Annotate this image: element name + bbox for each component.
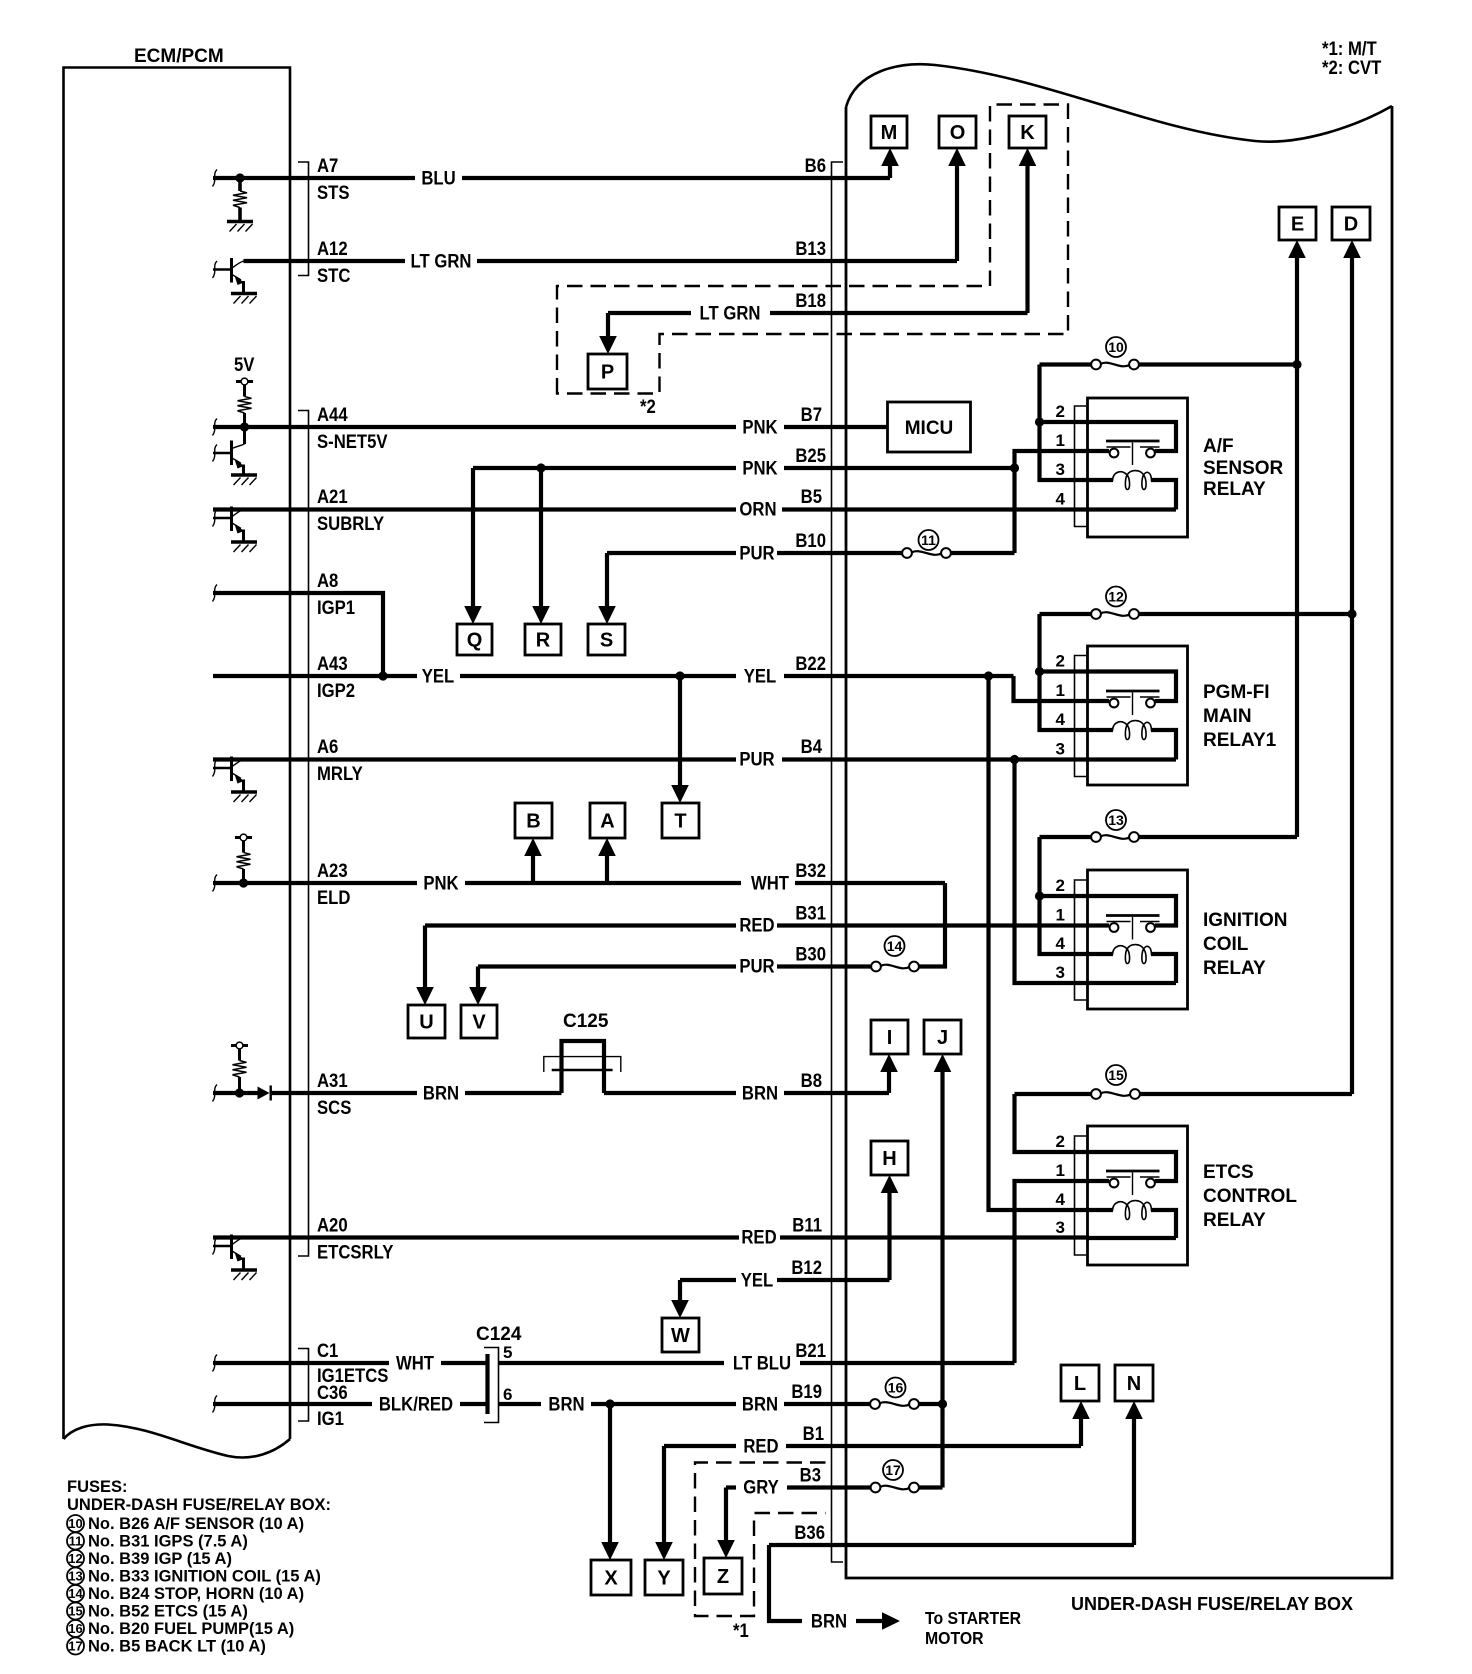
continuation mark C36 [213,1396,218,1413]
label YEL (A43) [422,666,455,687]
junction A/F pin2 [1035,417,1044,426]
continuation mark A12 base [213,261,218,278]
ECM connector bracket C1-C36 [298,1349,309,1422]
wire A6 MRLY to B4 (PUR), feeds PGM-FI relay pin 3 [213,757,1089,761]
wire B1 drop to Y [655,1446,673,1560]
label RED (B11) [741,1227,776,1248]
svg-text:Y: Y [657,1568,671,1590]
svg-text:B30: B30 [795,944,826,965]
svg-text:2: 2 [1056,652,1065,671]
continuation mark A7 [213,170,218,187]
wire B4 down to ignition coil relay pin 3 [1015,760,1090,984]
label B30 [795,944,826,965]
svg-text:J: J [937,1027,948,1049]
label ORN [739,499,776,520]
terminal box L [1061,1365,1099,1401]
wire B1 riser to L [1072,1401,1090,1446]
label RED (B1) [743,1436,778,1457]
dashed enclosure *2 (CVT option, around P and K) [557,105,1068,418]
svg-text:UNDER-DASH FUSE/RELAY BOX: UNDER-DASH FUSE/RELAY BOX [1071,1594,1353,1614]
svg-text:STC: STC [317,265,350,286]
continuation mark A8 [213,585,218,602]
label ELD [317,887,350,908]
svg-text:RELAY: RELAY [1203,1210,1266,1231]
svg-text:U: U [419,1012,433,1034]
svg-text:IGP1: IGP1 [317,597,355,618]
svg-text:COIL: COIL [1203,934,1249,955]
svg-text:L: L [1074,1373,1086,1395]
wire B21 riser to ETCS relay pin 1 [1015,1181,1090,1363]
svg-text:T: T [674,811,686,833]
transistor driver on A12 [213,258,257,304]
svg-text:6: 6 [503,1385,512,1404]
wire C36 IG1 to B19 (BLK/RED / BRN) through C124 pin 6 and fuse 16 [213,1402,943,1406]
svg-text:A/F: A/F [1203,436,1234,457]
svg-text:A7: A7 [317,155,338,176]
svg-text:PNK: PNK [742,458,777,479]
junction B4 riser [1010,755,1019,764]
svg-text:15: 15 [68,1604,82,1619]
wire B22 down to ETCS relay pin 4 [989,676,1090,1210]
terminal box O [939,116,976,148]
svg-text:WHT: WHT [751,873,789,894]
wire B12 riser to H [881,1175,899,1280]
svg-text:A20: A20 [317,1215,348,1236]
label B3 [800,1465,821,1486]
label YEL (B12) [741,1270,774,1291]
label UNDER-DASH FUSE/RELAY BOX [1071,1594,1353,1614]
wire A7 STS to B6 (BLU) [213,176,890,180]
svg-text:4: 4 [1056,934,1066,953]
svg-text:A6: A6 [317,736,338,757]
relay A/F SENSOR RELAY [1056,398,1188,537]
svg-text:B6: B6 [805,155,826,176]
wire B32 down to fuse 14 output [919,883,946,967]
wire A8 IGP1 joins A43 [213,593,383,676]
svg-text:SENSOR: SENSOR [1203,458,1284,479]
svg-text:1: 1 [1056,431,1065,450]
label A/F SENSOR RELAY [1203,436,1284,500]
label A6 [317,736,338,757]
label IG1 [317,1408,344,1429]
svg-text:*2: *2 [640,396,656,417]
svg-text:YEL: YEL [744,666,777,687]
wire B3 (GRY) to Z and through fuse 17 [726,1485,943,1489]
terminal box U [408,1005,445,1038]
svg-text:No. B26 A/F SENSOR (10 A): No. B26 A/F SENSOR (10 A) [88,1515,304,1533]
terminal box M [871,116,907,148]
svg-text:WHT: WHT [396,1353,434,1374]
svg-text:BLU: BLU [421,168,455,189]
svg-text:O: O [950,122,966,144]
label A31 [317,1070,348,1091]
svg-text:5V: 5V [234,354,254,375]
svg-text:YEL: YEL [741,1270,774,1291]
wire B25 drop to R [532,468,550,624]
wire fuse 13 feed (ignition coil relay pins 2 and 4) [1040,837,1298,954]
label PNK (B25) [742,458,777,479]
label To STARTER MOTOR [925,1608,1021,1648]
svg-text:B32: B32 [795,860,826,881]
svg-text:PUR: PUR [739,749,774,770]
junction ignition relay pin2 [1035,891,1044,900]
svg-text:BLK/RED: BLK/RED [379,1394,453,1415]
fuse 13 label [1106,810,1126,830]
svg-text:RELAY: RELAY [1203,479,1266,500]
fuse 17 label [883,1460,903,1480]
fuse 15 label [1106,1065,1126,1085]
svg-text:MOTOR: MOTOR [925,1628,984,1648]
wire B3 drop to Z [717,1488,735,1559]
MICU box [888,402,971,452]
svg-text:ELD: ELD [317,887,350,908]
svg-text:2: 2 [1056,1132,1065,1151]
label BLK/RED [379,1394,453,1415]
svg-text:3: 3 [1056,740,1065,759]
svg-text:4: 4 [1056,1190,1066,1209]
label MRLY [317,763,363,784]
label WHT (C1) [396,1353,434,1374]
label LT BLU (B21) [733,1353,791,1374]
label A21 [317,486,348,507]
svg-text:S-NET5V: S-NET5V [317,431,388,452]
svg-text:ORN: ORN [739,499,776,520]
wire A44 S-NET5V to B7 (PNK) [213,425,888,429]
svg-text:1: 1 [1056,906,1065,925]
svg-text:C125: C125 [563,1011,609,1032]
fuse 10 label [1106,337,1126,357]
svg-text:FUSES:: FUSES: [67,1478,128,1496]
label PUR (B30) [739,956,774,977]
label IGP1 [317,597,355,618]
wire C1 IG1ETCS to B21 (WHT / LT BLU) through C124 pin 5 [213,1361,1015,1365]
svg-text:No. B20 FUEL PUMP(15 A): No. B20 FUEL PUMP(15 A) [88,1620,294,1638]
label SCS [317,1097,351,1118]
label IG1ETCS [317,1365,389,1386]
wire B18 riser to K [1019,148,1037,313]
label B6 [805,155,826,176]
terminal box A [590,803,625,838]
wire B22 step to PGM-FI relay pin 1 [1014,676,1090,701]
svg-text:No. B33 IGNITION COIL (15 A): No. B33 IGNITION COIL (15 A) [88,1568,321,1586]
terminal box W [662,1318,699,1352]
svg-text:3: 3 [1056,1218,1065,1237]
label IGP2 [317,680,355,701]
svg-text:B7: B7 [801,404,822,425]
svg-text:12: 12 [1108,589,1124,605]
svg-text:14: 14 [887,938,903,954]
wire B10 (PUR) through fuse 11 [607,551,1015,555]
label WHT (B32) [751,873,789,894]
junction A8/A43 [378,671,387,680]
svg-text:N: N [1127,1373,1141,1395]
wire B36 to N and starter motor feed [769,1543,1134,1547]
label A20 [317,1215,348,1236]
label PGM-FI MAIN RELAY1 [1203,682,1277,751]
svg-text:PNK: PNK [742,417,777,438]
relay ETCS CONTROL RELAY [1056,1126,1188,1265]
direction diode on A31 [258,1086,271,1101]
5V pull-up resistor on A44 [236,378,253,432]
label SUBRLY [317,513,384,534]
terminal box Z [704,1558,742,1594]
label GRY (B3) [743,1477,779,1498]
label A7 [317,155,338,176]
wire B36 riser to N [1125,1401,1143,1545]
svg-text:B21: B21 [795,1340,826,1361]
label B36 [794,1522,825,1543]
label B4 [801,736,822,757]
label A43 [317,653,348,674]
svg-text:RED: RED [743,1436,778,1457]
svg-text:A: A [600,811,614,833]
label B5 [801,486,822,507]
svg-text:SUBRLY: SUBRLY [317,513,384,534]
label B22 [795,653,826,674]
wire A12 STC to B13 (LT GRN) [244,259,958,263]
svg-text:A23: A23 [317,860,348,881]
svg-text:10: 10 [1108,339,1124,355]
terminal box T [662,803,699,838]
svg-text:UNDER-DASH FUSE/RELAY BOX:: UNDER-DASH FUSE/RELAY BOX: [67,1496,331,1514]
wire B25 (PNK) [473,466,1015,470]
svg-text:SCS: SCS [317,1097,351,1118]
svg-text:BRN: BRN [742,1083,778,1104]
svg-text:X: X [604,1568,618,1590]
svg-text:11: 11 [69,1534,83,1549]
svg-text:CONTROL: CONTROL [1203,1186,1297,1207]
ECM connector bracket A7-A12 [298,162,309,276]
fuse 10 No. B26 A/F SENSOR [1091,360,1139,370]
label B13 [795,238,826,259]
label BRN (B8) [742,1083,778,1104]
svg-text:B12: B12 [791,1257,822,1278]
label B32 [795,860,826,881]
svg-text:A8: A8 [317,570,338,591]
label A23 [317,860,348,881]
wire B8 riser to I [880,1054,898,1093]
svg-text:12: 12 [68,1551,82,1566]
svg-text:C36: C36 [317,1382,348,1403]
continuation mark C1 [213,1355,218,1372]
terminal box R [525,624,561,655]
junction B25/B10 riser [1010,463,1019,472]
ground below A7 resistor [227,208,253,232]
connector B bracket [832,162,844,1562]
svg-text:RED: RED [741,1227,776,1248]
wire B31 (RED) to ignition coil relay pin 1 [425,923,1089,927]
svg-text:3: 3 [1056,460,1065,479]
wire fuse 12 feed (PGM-FI relay pins 2 and 4) [1040,614,1353,730]
label BLU [421,168,455,189]
wire B12 drop to W [671,1280,689,1318]
label C36 [317,1382,348,1403]
svg-text:A44: A44 [317,404,348,425]
transistor driver on A20 [213,1235,257,1281]
terminal box Q [457,624,492,655]
svg-text:RELAY1: RELAY1 [1203,730,1277,751]
terminal box S [588,624,625,655]
svg-text:17: 17 [885,1462,901,1478]
wire A21 SUBRLY to B5 (ORN), feeds A/F relay pin 4 [213,507,1089,511]
svg-text:B18: B18 [795,290,826,311]
label B21 [795,1340,826,1361]
label S-NET5V [317,431,388,452]
label STS [317,182,350,203]
svg-text:No. B39 IGP (15 A): No. B39 IGP (15 A) [88,1550,232,1568]
label A8 [317,570,338,591]
svg-text:RELAY: RELAY [1203,958,1266,979]
svg-text:M: M [881,122,898,144]
fuse 11 label [919,530,939,550]
pull-up resistor on A23 [235,834,252,888]
svg-text:To STARTER: To STARTER [925,1608,1021,1628]
svg-text:K: K [1020,122,1035,144]
label BRN (C36 mid) [548,1394,584,1415]
svg-text:B13: B13 [795,238,826,259]
svg-text:MAIN: MAIN [1203,706,1252,727]
svg-text:16: 16 [68,1621,82,1636]
continuation mark A6 base [213,760,218,777]
svg-text:Q: Q [467,630,483,652]
wire B22 drop to T [671,676,689,803]
wire drop to X [601,1404,619,1560]
svg-text:LT BLU: LT BLU [733,1353,791,1374]
svg-text:BRN: BRN [811,1611,847,1632]
label IGNITION COIL RELAY [1203,910,1287,979]
junction B25/R [536,463,545,472]
label C1 [317,1340,338,1361]
svg-text:MICU: MICU [905,418,954,439]
wire B18 drop to P [599,313,617,354]
under-dash fuse/relay box enclosure [846,64,1392,1578]
svg-text:R: R [536,630,551,652]
wire riser to D and down to fuse 15 [1343,240,1361,1094]
transistor driver on A21 [213,507,257,553]
relay PGM-FI MAIN RELAY1 [1056,646,1188,785]
svg-text:5: 5 [503,1343,512,1362]
svg-text:Z: Z [717,1566,729,1588]
wire B31 drop to U [416,926,434,1006]
label STC [317,265,350,286]
label A12 [317,238,348,259]
ECM/PCM enclosure box [64,68,291,1458]
svg-text:*2: CVT: *2: CVT [1322,57,1381,78]
wire B13 riser to O [948,148,966,261]
terminal box I [871,1020,908,1054]
fuse 11 No. B31 IGPS [902,548,951,558]
label B19 [791,1381,822,1402]
svg-text:10: 10 [68,1516,82,1531]
terminal box P [588,354,627,389]
svg-text:1: 1 [1056,1161,1065,1180]
fuse 14 label [885,936,905,956]
wire fuse 15 feed (ETCS relay pin 2) [1015,1094,1353,1152]
svg-text:B1: B1 [803,1423,824,1444]
continuation mark A20 base [213,1238,218,1255]
svg-text:P: P [601,362,614,384]
svg-text:H: H [882,1148,896,1170]
label pin 5 of C124 [503,1343,512,1362]
wire B6 riser to M [881,148,899,178]
svg-text:V: V [472,1012,486,1034]
svg-text:B22: B22 [795,653,826,674]
terminal box B [515,803,552,838]
connector C124 [476,1324,522,1423]
wire B12 (YEL) to W and H [680,1278,890,1282]
label B31 [795,903,826,924]
label B12 [791,1257,822,1278]
svg-text:B11: B11 [792,1215,822,1236]
continuation mark A23 [213,875,218,892]
label B11 [792,1215,822,1236]
wire B36 down to starter branch [769,1545,900,1630]
terminal box X [591,1560,631,1595]
terminal box N [1115,1365,1153,1401]
svg-text:ECM/PCM: ECM/PCM [134,46,224,67]
wire fuse 10 feed (A/F relay pins 2 and 3) [1040,365,1298,481]
svg-text:16: 16 [888,1380,904,1396]
terminal box E [1279,207,1316,240]
junction fuse16/fuse17/J riser [938,1399,947,1408]
riser fuse outputs to J [934,1054,952,1488]
riser to B box [524,838,542,883]
continuation mark A44 [213,419,218,436]
svg-text:LT GRN: LT GRN [700,303,761,324]
label A44 [317,404,348,425]
svg-text:4: 4 [1056,710,1066,729]
svg-text:B: B [526,811,540,833]
fuse legend [67,1478,331,1656]
label BRN (B19) [742,1394,778,1415]
terminal box K [1009,116,1046,148]
svg-text:B36: B36 [794,1522,825,1543]
continuation mark A21 base [213,510,218,527]
wire A20 ETCSRLY to B11 (RED), feeds ETCS relay pin 3 [213,1235,1089,1239]
svg-text:B3: B3 [800,1465,821,1486]
svg-text:No. B52 ETCS (15 A): No. B52 ETCS (15 A) [88,1603,248,1621]
svg-text:*1: *1 [733,1620,749,1641]
dashed enclosure *1 (M/T option, around Z) [695,1463,826,1642]
svg-text:17: 17 [68,1639,82,1654]
svg-text:No. B24 STOP, HORN (10 A): No. B24 STOP, HORN (10 A) [88,1585,304,1603]
svg-text:3: 3 [1056,963,1065,982]
connector C125 [544,1011,621,1072]
svg-text:C124: C124 [476,1324,522,1345]
svg-text:GRY: GRY [743,1477,779,1498]
svg-text:YEL: YEL [422,666,455,687]
svg-text:B31: B31 [795,903,826,924]
junction fuse12/D riser [1347,609,1356,618]
label B7 [801,404,822,425]
fuse 13 No. B33 IGNITION COIL [1091,832,1139,842]
transistor driver below A44 [213,427,257,485]
svg-text:E: E [1291,214,1304,236]
terminal box H [871,1141,908,1175]
svg-text:STS: STS [317,182,350,203]
wire B18 (LT GRN) to P and K [608,311,1028,315]
fuse 12 label [1106,587,1126,607]
svg-text:11: 11 [921,532,936,548]
junction B22/T drop [675,671,684,680]
svg-text:W: W [671,1325,690,1347]
label ECM/PCM [134,46,224,67]
svg-text:B19: B19 [791,1381,822,1402]
junction B22 distribution riser [984,671,993,680]
svg-text:A12: A12 [317,238,348,259]
svg-text:PNK: PNK [423,873,458,894]
label BRN (starter) [811,1611,847,1632]
